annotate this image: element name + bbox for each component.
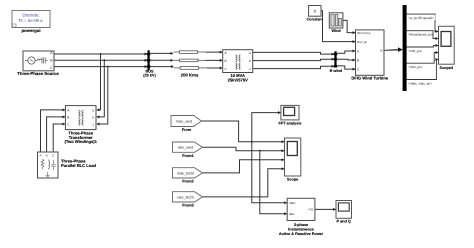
wire Iabc_wind to scope in2 bbox=[203, 147, 285, 151]
from tag Iabc_B220 bbox=[173, 192, 203, 208]
wire Vabc_wind to scope in1 bbox=[202, 121, 285, 142]
svg-text:<Tem_pu>: <Tem_pu> bbox=[408, 65, 423, 69]
svg-text:B: B bbox=[225, 59, 227, 63]
svg-text:powergui: powergui bbox=[21, 28, 40, 33]
3-phase power block bbox=[279, 198, 324, 236]
svg-text:Vabc_wind: Vabc_wind bbox=[176, 119, 192, 123]
junction to power Iabc bbox=[259, 150, 287, 214]
three-phase parallel RLC load bbox=[38, 152, 97, 178]
svg-text:<w_pu (El-speed)>: <w_pu (El-speed)> bbox=[408, 16, 434, 20]
svg-text:(Two Windings)1: (Two Windings)1 bbox=[64, 139, 97, 144]
svg-text:From1: From1 bbox=[182, 154, 194, 158]
svg-text:3-phase: 3-phase bbox=[294, 223, 308, 227]
svg-text:C: C bbox=[50, 66, 53, 70]
wire phase C source to bus bbox=[54, 66, 147, 68]
svg-text:<Vdc_pu>: <Vdc_pu> bbox=[408, 49, 422, 53]
wire T2c to B wind bbox=[253, 66, 334, 68]
svg-text:b: b bbox=[249, 59, 251, 63]
wire load to T1 B bbox=[47, 117, 65, 152]
wire load to T1 C bbox=[53, 124, 65, 152]
wire B wind to DFIG A bbox=[337, 51, 355, 53]
bus B wind bbox=[330, 51, 343, 73]
svg-text:Scope4: Scope4 bbox=[440, 66, 454, 70]
wire PQ to P and Q scope bbox=[315, 208, 336, 210]
wire Vabc_B220 to scope in3 bbox=[203, 160, 285, 173]
svg-text:From3: From3 bbox=[182, 204, 194, 208]
svg-text:<RotorSpeed_pu>: <RotorSpeed_pu> bbox=[408, 33, 433, 37]
svg-text:Scope: Scope bbox=[287, 177, 298, 181]
svg-text:Wind: Wind bbox=[331, 29, 341, 33]
wire B wind to DFIG B bbox=[337, 58, 355, 61]
svg-text:Iabc_wind: Iabc_wind bbox=[178, 146, 193, 150]
signal RotorSpeed wire to Scope4 bbox=[407, 31, 438, 39]
wire constant to DFIG Gref bbox=[321, 11, 355, 42]
svg-text:Ts = 5e-06 s.: Ts = 5e-06 s. bbox=[18, 18, 43, 23]
transformer two windings 1 bbox=[64, 106, 97, 145]
svg-text:(25 kV): (25 kV) bbox=[143, 74, 156, 78]
from tag Iabc_wind bbox=[173, 142, 203, 158]
svg-text:B: B bbox=[67, 115, 69, 119]
FFT analysis block bbox=[278, 105, 301, 125]
junction A drop to transformer1 bbox=[97, 53, 102, 110]
line 200km phase A bbox=[150, 51, 222, 54]
scope block bbox=[285, 138, 301, 181]
svg-text:FFT analysis: FFT analysis bbox=[278, 122, 301, 126]
wire phase B source to bus bbox=[54, 59, 147, 61]
svg-text:Parallel RLC Load: Parallel RLC Load bbox=[61, 163, 97, 168]
junction to FFT bbox=[251, 113, 281, 143]
svg-text:B wind: B wind bbox=[330, 69, 343, 73]
svg-text:Vabc_B220: Vabc_B220 bbox=[177, 171, 194, 175]
scope4 block bbox=[439, 26, 455, 70]
svg-text:Active & Reactive Power: Active & Reactive Power bbox=[279, 232, 324, 236]
wire T2b to B wind bbox=[253, 59, 334, 60]
wire load to T1 A bbox=[41, 110, 65, 152]
junction C drop to transformer1 bbox=[97, 66, 109, 124]
bus selector bar bbox=[403, 5, 407, 91]
svg-text:a: a bbox=[249, 51, 251, 55]
from tag Vabc_B220 bbox=[173, 168, 203, 184]
svg-text:P and Q: P and Q bbox=[337, 220, 351, 224]
svg-text:Wind (m/s): Wind (m/s) bbox=[357, 31, 371, 35]
wire T2a to B wind bbox=[253, 52, 334, 54]
line 200km phase C bbox=[150, 67, 222, 70]
wire Iabc_B220 to scope in4 bbox=[203, 169, 285, 197]
signal Vdc wire to Scope4 bbox=[407, 46, 438, 53]
svg-text:B: B bbox=[46, 154, 48, 158]
svg-text:Three-Phase Source: Three-Phase Source bbox=[17, 71, 59, 76]
powergui block bbox=[12, 11, 50, 34]
transformer 10 MVA bbox=[223, 50, 253, 83]
svg-text:Constant: Constant bbox=[307, 18, 324, 22]
signal Tem wire to Scope4 bbox=[407, 53, 438, 70]
wire phase A source to bus bbox=[54, 53, 147, 55]
svg-text:A: A bbox=[39, 154, 41, 158]
svg-text:a: a bbox=[92, 108, 94, 112]
svg-text:Gref_pu: Gref_pu bbox=[357, 40, 368, 44]
signal w_pu wire to Scope4 bbox=[407, 14, 438, 31]
svg-text:b: b bbox=[92, 115, 94, 119]
junction B drop to transformer1 bbox=[97, 59, 105, 117]
svg-text:From2: From2 bbox=[182, 180, 194, 184]
svg-text:m: m bbox=[380, 48, 383, 52]
svg-text:Iabc_B220: Iabc_B220 bbox=[177, 195, 193, 199]
wire B wind to DFIG C bbox=[337, 66, 355, 69]
P and Q scope block bbox=[336, 201, 352, 224]
svg-text:<Vabc_stato_pu>: <Vabc_stato_pu> bbox=[408, 81, 432, 85]
constant block bbox=[307, 6, 324, 22]
wire wind to DFIG wind input bbox=[343, 20, 355, 32]
bus B1 25 kV bbox=[143, 50, 156, 77]
svg-text:Vabc: Vabc bbox=[289, 201, 296, 205]
svg-text:From: From bbox=[182, 128, 192, 132]
m bus wire to bus selector bbox=[384, 47, 403, 52]
junction to power Vabc bbox=[252, 142, 287, 203]
svg-text:DFIG Wind Turbine: DFIG Wind Turbine bbox=[351, 75, 388, 80]
svg-text:B: B bbox=[357, 58, 359, 62]
three-phase source bbox=[17, 51, 59, 76]
from tag Vabc_wind bbox=[171, 116, 202, 132]
svg-text:Iabc: Iabc bbox=[289, 212, 295, 216]
svg-text:200 Kms: 200 Kms bbox=[181, 72, 199, 77]
svg-text:25kV/575V: 25kV/575V bbox=[228, 78, 249, 83]
wind block bbox=[329, 13, 343, 33]
svg-text:PQ: PQ bbox=[309, 208, 314, 212]
DFIG wind turbine block bbox=[351, 30, 388, 81]
line 200km phase B bbox=[150, 59, 222, 62]
svg-text:Instantaneous: Instantaneous bbox=[288, 228, 314, 232]
signal Vabc_stato wire to Scope4 bbox=[407, 60, 438, 86]
